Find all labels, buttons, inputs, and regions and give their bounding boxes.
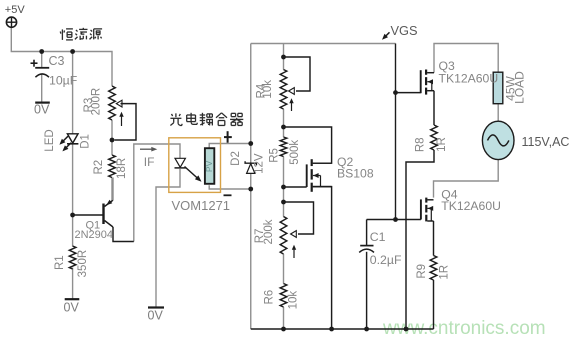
svg-text:VGS: VGS — [391, 23, 418, 38]
svg-text:+5V: +5V — [5, 4, 26, 16]
svg-text:R8: R8 — [415, 137, 427, 152]
svg-text:200R: 200R — [90, 88, 102, 116]
svg-text:115V,AC: 115V,AC — [522, 135, 570, 149]
svg-text:TK12A60U: TK12A60U — [441, 199, 501, 213]
svg-text:D2: D2 — [230, 151, 242, 166]
svg-text:10µF: 10µF — [49, 73, 78, 87]
svg-text:R9: R9 — [416, 264, 428, 279]
svg-text:R1: R1 — [54, 255, 66, 270]
svg-text:10k: 10k — [288, 291, 300, 310]
svg-text:500k: 500k — [289, 140, 301, 165]
svg-text:12V: 12V — [254, 153, 266, 174]
svg-text:R6: R6 — [264, 290, 276, 305]
svg-text:350R: 350R — [77, 250, 89, 278]
svg-text:18R: 18R — [116, 158, 128, 179]
svg-text:0V: 0V — [148, 309, 164, 323]
svg-text:LOAD: LOAD — [512, 71, 526, 104]
svg-text:PV: PV — [204, 160, 214, 172]
svg-text:1R: 1R — [436, 137, 448, 152]
svg-text:BS108: BS108 — [337, 166, 374, 180]
svg-text:R5: R5 — [269, 148, 281, 163]
svg-text:R2: R2 — [93, 160, 105, 175]
svg-text:TK12A60U: TK12A60U — [439, 71, 499, 85]
svg-text:D1: D1 — [80, 134, 92, 149]
svg-text:1R: 1R — [439, 265, 451, 280]
svg-text:200k: 200k — [263, 219, 275, 244]
svg-text:LED: LED — [44, 129, 56, 151]
svg-text:C1: C1 — [370, 230, 386, 244]
svg-text:0V: 0V — [34, 103, 50, 117]
svg-text:0.2µF: 0.2µF — [370, 253, 402, 267]
svg-text:10k: 10k — [262, 80, 274, 99]
svg-text:C3: C3 — [49, 54, 65, 68]
svg-text:VOM1271: VOM1271 — [172, 198, 231, 213]
svg-text:2N2904: 2N2904 — [75, 229, 114, 241]
svg-text:0V: 0V — [64, 301, 80, 315]
svg-text:IF: IF — [144, 155, 155, 169]
